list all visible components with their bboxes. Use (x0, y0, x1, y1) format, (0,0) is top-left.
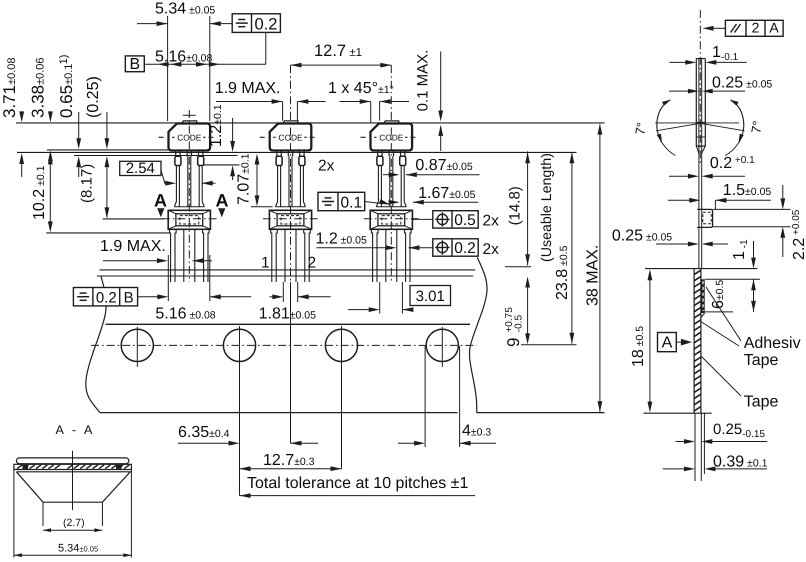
dimension 5.34 ±0.05 top (137, 1, 232, 122)
svg-text:Adhesiv: Adhesiv (744, 335, 801, 352)
lead outer edges (695, 59, 697, 123)
svg-text:(14.8): (14.8) (507, 186, 524, 225)
svg-text:Tape: Tape (744, 394, 779, 411)
dimension 38 MAX. (585, 124, 603, 413)
svg-text:7°: 7° (632, 121, 649, 136)
package P2 CODE marking (260, 136, 265, 138)
dimension 1.81 ±0.05 (259, 294, 331, 322)
svg-text:0.1 MAX.: 0.1 MAX. (415, 50, 432, 112)
svg-text:0.2: 0.2 (96, 289, 117, 306)
bend 7deg line left (656, 123, 700, 131)
dimension 23.8 ±0.5 (521, 152, 577, 345)
dimension 0.39 ±0.1 total thickness (663, 454, 768, 472)
svg-text:A - A: A - A (56, 423, 95, 437)
section marker A (right) (216, 191, 229, 218)
svg-text:0.5: 0.5 (454, 212, 476, 229)
extension lines 1.81 (282, 282, 284, 302)
package P2 crimp shoulder line (276, 206, 306, 208)
tape reference line (17, 151, 577, 153)
lead cross-section right (116, 465, 122, 469)
dimension 5.34 ±0.05 section (14, 470, 131, 558)
adhesive tape top line (100, 269, 476, 271)
svg-text:(0.25): (0.25) (85, 76, 102, 118)
svg-text:2x: 2x (318, 158, 335, 175)
dimension 0.25 -0.15 tape thickness bottom (676, 421, 768, 444)
dimension 4 ±0.3 hole diameter (398, 423, 496, 446)
label Tape with leader (701, 356, 778, 411)
crimp trapezoid (16, 472, 130, 502)
svg-text:(Useable Length): (Useable Length) (539, 153, 555, 262)
adhesive tape strip (16, 458, 128, 464)
svg-text:2: 2 (752, 20, 760, 36)
svg-text:2: 2 (308, 255, 317, 272)
side view centreline (699, 10, 701, 163)
dimension 1.67 ±0.05 lead spacing (389, 185, 479, 205)
crimp centre reference line (8.17) (103, 218, 164, 220)
dimension 0.65 ±0.1 1) (57, 55, 81, 177)
main front view: three taped TO-92 packages (0, 1, 605, 499)
adhesive reference line (74, 155, 238, 157)
tape section hatch borders (693, 269, 695, 414)
label Adhesiv Tape with leaders (702, 287, 801, 369)
angular arc right (725, 100, 744, 156)
tape sprocket centreline (91, 344, 477, 346)
svg-text:1: 1 (261, 255, 270, 272)
lead crimp taper (696, 146, 699, 153)
dimension 1 -1 adhesive recess (731, 239, 756, 269)
adhesive taper (701, 313, 705, 318)
dimension (14.8) (505, 151, 531, 266)
svg-text:(8.17): (8.17) (79, 164, 96, 203)
sprocket hole 3 (325, 329, 357, 361)
package P2 leads (276, 151, 278, 157)
dimension (0.25) (85, 76, 109, 218)
dimension 6.35 ±0.4 (178, 424, 318, 446)
dimension 9 +0.75/-0.5 (504, 277, 530, 348)
sprocket hole 1 centre tick (136, 327, 138, 367)
dimension 12.7 ±0.3 (240, 452, 342, 471)
tape faces below (694, 413, 696, 481)
tape section hatch (694, 270, 701, 274)
svg-text:CODE: CODE (379, 133, 404, 143)
lead in adhesive bump (697, 209, 712, 227)
dimension 7.07 ±0.1 (236, 153, 273, 206)
dimension (2.7) (43, 517, 102, 532)
package P2 body (TO-92) (270, 124, 312, 151)
svg-text:Tape: Tape (744, 352, 779, 369)
datum B flag and dimension 5.16 ±0.08 top (125, 49, 265, 74)
bend 7deg line right (700, 123, 744, 131)
svg-text:A: A (662, 335, 673, 352)
side tape bottom edge (644, 412, 712, 414)
dimension 1.2 ±0.05 crimped lead width (316, 231, 433, 251)
lead cross-section left (23, 465, 29, 469)
tape top line (97, 275, 473, 277)
package P2 tape crimp block (269, 210, 311, 229)
dimension 0.1 MAX. standoff (415, 50, 444, 151)
crimp inner walls (42, 502, 44, 526)
tape break line right (469, 258, 487, 413)
package P3 tape crimp block (370, 210, 412, 229)
dimension 0.2 +0.1 (669, 155, 755, 179)
tape lower edge (100, 412, 458, 414)
dimension 18 ±0.5 tape width (630, 269, 652, 412)
feature control frame: parallelism 2 A (703, 20, 784, 37)
extension lines 3.01 (379, 282, 381, 314)
dimension: total tolerance at 10 pitches ±1 (240, 475, 476, 498)
dimension 1 -0.1 (669, 44, 746, 65)
package P3 crimped legs (372, 229, 373, 282)
svg-text:0.2: 0.2 (255, 15, 278, 33)
svg-text:2x: 2x (483, 241, 500, 258)
feature control frame: symmetry 0.2 B (73, 288, 137, 307)
sprocket hole 1 (121, 329, 153, 361)
package P3 CODE marking (361, 136, 366, 138)
side view of taped component (612, 10, 806, 481)
tape upper edge (106, 323, 470, 325)
svg-text:CODE: CODE (177, 133, 202, 143)
carrier tape band (86, 255, 605, 496)
package P3 leads (377, 151, 379, 157)
lead top cap (696, 58, 705, 60)
package P3 body (TO-92) (371, 124, 413, 151)
svg-text:1.9 MAX.: 1.9 MAX. (215, 80, 281, 97)
lead inner edges (698, 59, 700, 269)
dimension 6 ±0.5 adhesive width (703, 279, 760, 312)
dimension 10.2 ±0.1 (31, 153, 53, 232)
dimension 3.71 ±0.08 (0, 57, 24, 177)
seating plane line (47, 149, 168, 151)
feature control frame: position 0.5 2x (413, 211, 499, 230)
centerline package P1 (188, 110, 190, 282)
svg-text:(2.7): (2.7) (63, 517, 85, 529)
dimension 0.87 ±0.05 outer lead (383, 157, 480, 177)
svg-text:B: B (124, 289, 134, 306)
datum flag A (658, 333, 692, 352)
boxed dimension 3.01 (348, 286, 451, 313)
svg-text:0.2: 0.2 (454, 240, 476, 257)
svg-text:Total tolerance at 10 pitches: Total tolerance at 10 pitches ±1 (247, 475, 468, 492)
package P1 tape crimp block (168, 210, 210, 229)
extension line hole 3 (341, 326, 343, 469)
package P2 top tab (283, 121, 298, 123)
sprocket hole 2 (223, 329, 255, 361)
dimension 2.2 +0.05 (713, 185, 806, 260)
tape break line left (86, 277, 106, 413)
boxed dimension 2.54 lead pitch (120, 160, 216, 186)
section centreline (72, 451, 74, 510)
dimension 5.16 ±0.08 bottom (138, 294, 252, 322)
centerline package P3 (390, 65, 392, 282)
svg-text:B: B (129, 56, 140, 73)
svg-text:38 MAX.: 38 MAX. (585, 245, 602, 306)
svg-text:7°: 7° (748, 120, 765, 135)
sprocket hole 4 centre tick (441, 327, 443, 367)
svg-text:1.9 MAX.: 1.9 MAX. (100, 238, 166, 255)
package P1 top tab (182, 121, 197, 123)
adhesive tape front face (701, 279, 704, 313)
lead crimp section (696, 123, 705, 147)
dimension 0.25 ±0.05 tape thickness (612, 228, 728, 247)
extension line hole 2 (239, 326, 241, 496)
svg-text:A: A (769, 20, 779, 36)
package P1 leads (175, 151, 177, 157)
sprocket hole 4 (426, 329, 458, 361)
section view A-A (14, 423, 131, 558)
svg-text:0.1: 0.1 (341, 194, 363, 211)
svg-text:A: A (216, 191, 229, 211)
svg-text:CODE: CODE (278, 133, 303, 143)
dimension 12.7 ±1 package pitch (291, 42, 392, 68)
svg-text:3.01: 3.01 (416, 288, 445, 305)
dimension 0.25 ±0.05 lead thickness (669, 75, 772, 94)
package P1 crimp shoulder line (174, 206, 204, 208)
package P1 crimped legs (170, 229, 171, 282)
svg-text:A: A (154, 191, 167, 211)
extension line package 2 centre (290, 282, 292, 443)
dimension 1.5 ±0.05 (668, 182, 771, 209)
side tape top edge (645, 268, 757, 270)
section marker A (left) (154, 191, 167, 218)
feature control frame: position 0.2 2x (433, 239, 499, 258)
svg-text:5.34±0.05: 5.34±0.05 (58, 543, 98, 555)
dimension 1.2 ±0.1 (208, 104, 235, 180)
extension lines 5.16 bottom (167, 255, 169, 301)
package P3 top tab (384, 121, 399, 123)
feature control frame: symmetry 0.2 (232, 14, 280, 65)
dimension 1 x 45° ±1° chamfer (328, 80, 409, 123)
centerline package P2 (290, 65, 292, 282)
svg-text:2.54: 2.54 (126, 160, 155, 177)
feature control frame: symmetry 0.1 (318, 192, 390, 211)
dimension 3.38 ±0.06 (29, 57, 53, 161)
datum line package top plane (16, 122, 605, 124)
bump hidden lead (703, 212, 711, 224)
bend reference line (655, 122, 739, 124)
angular arc left (657, 100, 676, 156)
dimension 1.9 MAX. crimped lead (100, 238, 212, 263)
package P1 body (TO-92) (169, 124, 211, 151)
crimp bottom reference line (10.2) (46, 232, 170, 234)
dimension 1.9 MAX. tab width (215, 80, 326, 121)
lead shoulder reference line (204, 164, 240, 166)
package P1 CODE marking (159, 136, 164, 138)
package P3 crimp shoulder line (376, 206, 406, 208)
carrier tape hatch (17, 465, 22, 469)
carrier tape strip (14, 464, 131, 469)
extension line hole 4 tangents (424, 346, 426, 447)
package P2 crimped legs (271, 229, 272, 282)
svg-text:2x: 2x (483, 213, 500, 230)
